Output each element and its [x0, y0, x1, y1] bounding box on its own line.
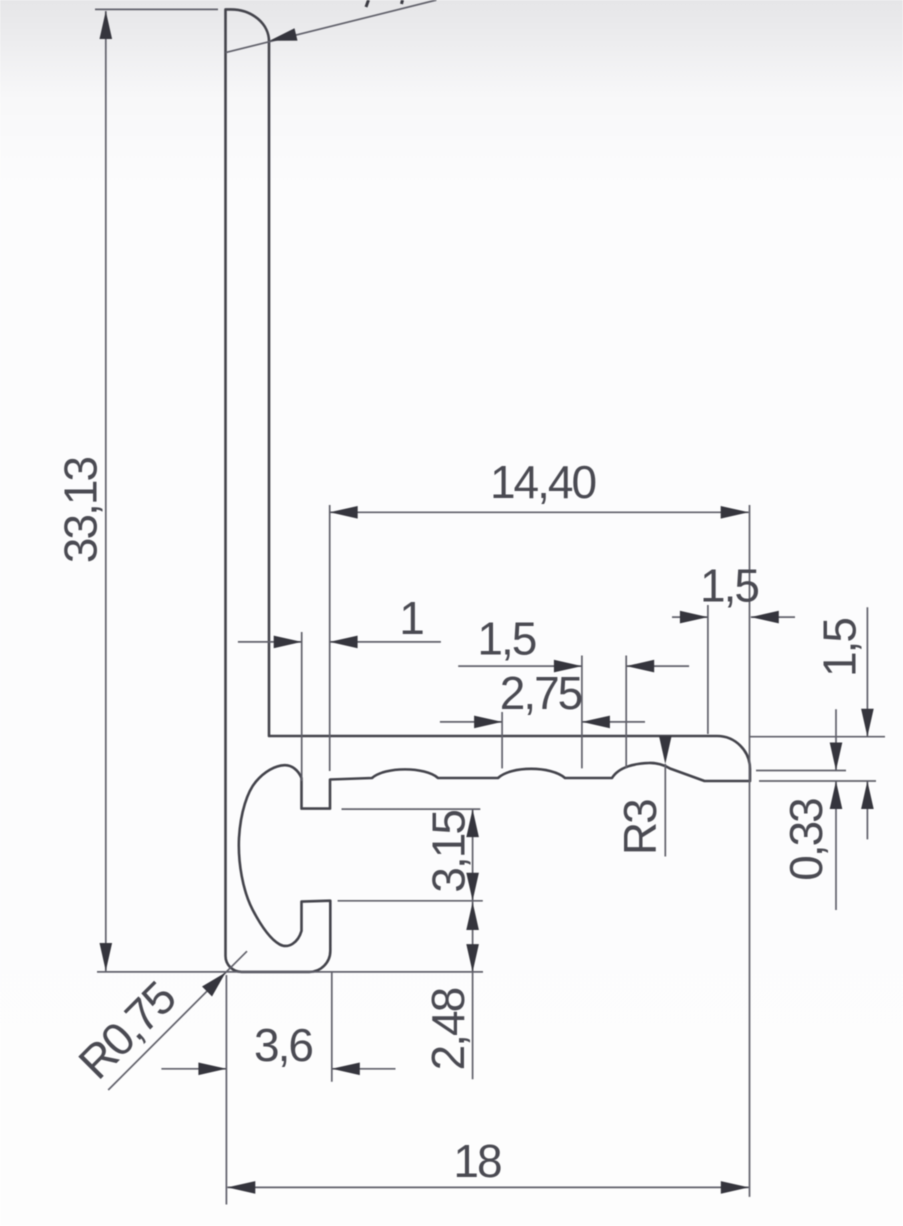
- svg-text:1,5: 1,5: [477, 613, 535, 665]
- svg-text:1: 1: [399, 592, 423, 644]
- svg-text:3,15: 3,15: [422, 811, 474, 893]
- svg-text:14,40: 14,40: [490, 456, 596, 508]
- svg-text:1,5: 1,5: [700, 560, 758, 612]
- svg-text:18: 18: [453, 1135, 501, 1187]
- svg-text:0,33: 0,33: [780, 799, 832, 881]
- svg-text:2,75: 2,75: [500, 667, 582, 719]
- svg-text:33,13: 33,13: [55, 458, 107, 564]
- svg-text:2,48: 2,48: [422, 988, 474, 1070]
- svg-text:R3: R3: [614, 800, 666, 855]
- svg-text:1,5: 1,5: [814, 619, 866, 677]
- svg-text:3,6: 3,6: [254, 1019, 312, 1071]
